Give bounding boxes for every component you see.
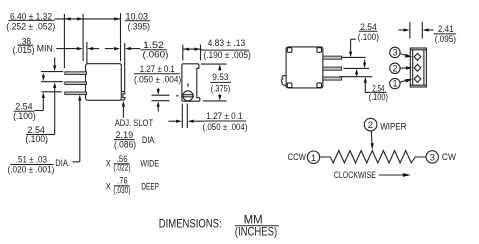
centerline dash above screw — [187, 83, 189, 87]
label 2.54 bottom right — [369, 83, 388, 103]
svg-text:3: 3 — [393, 48, 398, 58]
pin number circle 2 — [390, 63, 400, 73]
clockwise arrow — [379, 173, 411, 177]
svg-text:(.022): (.022) — [113, 163, 130, 174]
svg-text:CLOCKWISE: CLOCKWISE — [334, 170, 376, 180]
dim 4.83 arrows — [183, 48, 203, 51]
pin 3 top — [323, 56, 342, 59]
fraction bar MM/INCHES — [235, 225, 279, 227]
screw slot lines — [183, 95, 194, 97]
wiper arrow — [371, 131, 374, 150]
centerline dash left — [176, 95, 179, 97]
svg-text:(.252 ± .052): (.252 ± .052) — [6, 21, 55, 32]
label X .56 WIDE — [106, 154, 159, 174]
dim 2.41 ext lines — [410, 22, 422, 39]
label 4.83 — [203, 38, 251, 61]
svg-text:(.030): (.030) — [113, 185, 130, 196]
svg-text:DEEP: DEEP — [141, 182, 159, 192]
corner post bottom-right — [317, 83, 322, 88]
pin ext lines right — [339, 57, 372, 76]
dim .38 arrows — [56, 47, 99, 50]
leader ADJ SLOT to boss — [122, 101, 125, 118]
svg-text:(.100): (.100) — [358, 32, 379, 43]
pin 3 (bottom) — [65, 92, 87, 95]
dim 1.27 upper ext lines — [152, 95, 170, 101]
label 2.54 top right — [358, 22, 379, 43]
pin number circle 3 — [390, 47, 400, 57]
screw head circle — [183, 91, 193, 101]
svg-text:DIA.: DIA. — [55, 158, 70, 168]
svg-text:(.375): (.375) — [211, 84, 230, 95]
label X .76 DEEP — [106, 176, 159, 196]
svg-text:2: 2 — [368, 120, 373, 131]
svg-text:CCW: CCW — [288, 152, 307, 162]
extension line boss tip — [124, 43, 126, 91]
svg-text:X: X — [106, 182, 111, 192]
leader 2.54 top — [349, 39, 356, 57]
svg-text:3: 3 — [430, 153, 435, 164]
pin spacing arrows outer chain — [46, 58, 56, 135]
corner post top-left — [287, 48, 292, 53]
svg-text:(.095): (.095) — [435, 34, 456, 45]
label 9.53 — [210, 72, 231, 95]
svg-text:1: 1 — [393, 79, 398, 89]
pin 1 (top) — [65, 72, 87, 75]
svg-text:ADJ. SLOT: ADJ. SLOT — [115, 118, 154, 128]
svg-text:WIDE: WIDE — [140, 159, 159, 169]
svg-text:DIMENSIONS:: DIMENSIONS: — [159, 217, 222, 231]
trimmer body top view (right) — [286, 47, 323, 88]
label 1.27 upper — [134, 64, 181, 85]
dim line 6.40 — [55, 17, 84, 20]
extension line pin shoulder — [82, 14, 84, 61]
svg-text:MIN.: MIN. — [37, 43, 55, 53]
dim 1.27 lower arrows — [169, 120, 205, 123]
pin diamond 2 — [414, 64, 421, 71]
pin diamond 1 — [414, 75, 421, 82]
label 2.54 lower — [25, 125, 48, 145]
svg-text:2: 2 — [393, 63, 398, 73]
trimmer body side view — [86, 64, 122, 101]
resistor element — [320, 151, 426, 163]
svg-text:(.100): (.100) — [25, 134, 48, 145]
svg-text:(.050 ± .004): (.050 ± .004) — [134, 74, 181, 85]
label 1.27 lower — [203, 111, 248, 133]
pin extension lines — [41, 72, 63, 92]
pin 1 bottom — [323, 77, 342, 80]
svg-text:9.53: 9.53 — [212, 72, 228, 83]
dim arrows pins right — [355, 60, 370, 93]
extension line body right face — [120, 13, 122, 61]
label 2.54 upper — [13, 102, 36, 122]
dim 2.41 arrows — [398, 28, 433, 31]
label 6.40 — [6, 12, 55, 33]
svg-text:(.100): (.100) — [369, 92, 388, 103]
housing edge view (far right) — [410, 48, 426, 87]
corner post top-right — [317, 48, 322, 53]
svg-text:(.060): (.060) — [143, 49, 169, 60]
extension line pin end — [63, 14, 65, 68]
svg-text:(INCHES): (INCHES) — [235, 224, 277, 238]
pin 2 (middle) — [65, 82, 87, 85]
label 2.41 — [434, 24, 456, 45]
pin spacing arrows inner chain — [35, 74, 45, 111]
label 10.03 — [125, 11, 151, 32]
side boss profile left — [281, 76, 286, 86]
pin number circle 1 — [390, 78, 400, 88]
svg-text:X: X — [106, 159, 111, 169]
dim 9.53 arrows — [218, 64, 221, 100]
schematic circle 3 — [426, 151, 438, 164]
dim 9.53 ext lines — [201, 64, 227, 101]
label .51 DIA — [8, 154, 71, 175]
label 2.19 DIA — [114, 130, 156, 151]
leader circle 2 — [400, 66, 412, 70]
label .38 MIN — [13, 36, 56, 56]
trimmer body front view (middle) — [182, 64, 200, 101]
svg-text:(.086): (.086) — [114, 140, 136, 151]
corner post bottom-left — [287, 83, 292, 88]
leader circle 3 — [400, 54, 413, 58]
extension line body left face — [86, 42, 88, 64]
dim 4.83 ext lines — [183, 45, 201, 61]
svg-text:(.020 ± .001): (.020 ± .001) — [8, 165, 55, 176]
label 1.52 — [141, 40, 169, 60]
pin diamond 3 — [414, 53, 421, 60]
svg-text:(.100): (.100) — [13, 111, 36, 122]
schematic circle 2 wiper — [364, 118, 377, 131]
svg-text:(.015): (.015) — [13, 45, 35, 56]
svg-text:(.395): (.395) — [128, 22, 151, 33]
leader circle 1 — [400, 79, 413, 83]
dim line 10.03 — [83, 17, 120, 20]
svg-text:WIPER: WIPER — [380, 122, 407, 132]
svg-text:1.27 ± 0.1: 1.27 ± 0.1 — [206, 111, 242, 122]
svg-text:1: 1 — [311, 153, 316, 164]
dim 1.27 lower ext lines — [182, 104, 187, 128]
dim 1.27 upper arrows — [157, 88, 160, 112]
pin 2 middle — [323, 67, 342, 70]
dim 1.52 arrows — [105, 47, 140, 50]
schematic circle 1 — [307, 151, 319, 164]
svg-text:4.83 ± .13: 4.83 ± .13 — [208, 38, 246, 49]
leader .51 DIA to pin — [73, 95, 82, 162]
svg-text:(.190 ± .005): (.190 ± .005) — [203, 50, 250, 61]
svg-text:(.050 ± .004): (.050 ± .004) — [203, 122, 248, 133]
adjustment boss side profile — [121, 91, 125, 100]
svg-text:DIA.: DIA. — [142, 135, 156, 145]
svg-text:CW: CW — [442, 152, 456, 162]
